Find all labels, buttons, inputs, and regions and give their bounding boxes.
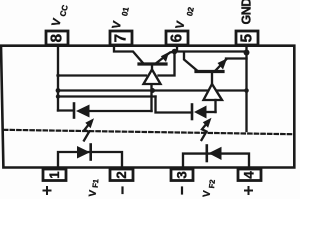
pin 3 box	[171, 169, 193, 181]
svg-text:6: 6	[169, 34, 186, 43]
transistor Q1 emitter arrow	[161, 52, 169, 62]
svg-text:F1: F1	[91, 179, 101, 189]
transistor Q1 base bar	[139, 62, 166, 65]
wire rail to photodiode D2 cathode	[58, 95, 156, 97]
svg-text:5: 5	[239, 34, 256, 43]
wire pin 7 to transistor Q1 collector	[114, 45, 143, 63]
wire amp U1 input vertical	[150, 84, 152, 111]
junction dot VCC rail A	[56, 74, 59, 77]
LED D4 input wire channel 2	[183, 154, 249, 169]
photodiode D2	[192, 105, 207, 120]
transistor Q2 emitter arrow	[218, 59, 228, 70]
label plus pin 1	[44, 187, 51, 194]
LED D3 input wire channel 1	[58, 152, 122, 169]
transistor Q1 emitter	[157, 52, 174, 63]
wire rail VCC to amp U1	[58, 74, 146, 76]
svg-text:8: 8	[49, 34, 66, 43]
pin 5 box	[236, 31, 258, 45]
wire amp U2 input vertical	[214, 100, 216, 112]
wire transistor Q2 collector drop	[184, 52, 197, 71]
light arrow channel 2	[202, 118, 212, 140]
wire node to pin5 vertical	[176, 50, 247, 52]
label plus pin 4	[245, 187, 252, 194]
junction dot VCC rail B	[56, 88, 61, 93]
svg-text:GND: GND	[240, 0, 254, 25]
label minus pin 3	[181, 188, 183, 194]
pin 7 box	[110, 31, 132, 45]
junction dot GND top	[244, 50, 250, 56]
svg-text:1: 1	[47, 171, 62, 179]
amp U1 triangle	[144, 70, 161, 85]
wire rail across to pin5 vertical	[58, 89, 247, 91]
junction dot GND rail	[244, 88, 249, 93]
svg-text:3: 3	[175, 171, 190, 179]
light arrow channel 1	[84, 118, 94, 140]
wire photodiode D1 anode to amp input	[89, 110, 152, 112]
package outline	[1, 46, 294, 168]
wire photodiode D2 anode	[206, 111, 216, 113]
pin 4 box	[238, 169, 261, 181]
svg-text:7: 7	[113, 34, 130, 43]
node junction pin6/emitter	[172, 49, 178, 55]
wire amp U1 right side to node	[159, 53, 175, 76]
pin 1 box	[43, 169, 66, 181]
pin 8 box	[46, 31, 68, 45]
photodiode D1	[74, 104, 90, 118]
pin 2 box	[110, 169, 133, 181]
amp U2 stub	[211, 72, 213, 85]
pin 6 box	[166, 31, 188, 45]
svg-text:4: 4	[242, 171, 257, 179]
transistor Q2 base bar	[196, 70, 223, 73]
LED D3	[77, 145, 91, 160]
transistor Q2 emitter	[216, 60, 226, 71]
wire VCC vertical from pin 8	[57, 45, 59, 111]
wire pin 6 drop	[176, 45, 178, 50]
amp U1 stub	[151, 66, 153, 71]
isolation shield dashed line	[4, 130, 292, 134]
junction dot VCC rail C	[56, 94, 60, 98]
wire photodiode D2 cathode to rail	[156, 97, 193, 113]
svg-text:F2: F2	[207, 179, 217, 189]
wire Q2 emitter to GND vertical	[226, 57, 247, 59]
junction dot amp1 input crossing	[150, 88, 155, 93]
wire photodiode D1 cathode	[58, 109, 72, 111]
label minus pin 2	[121, 188, 123, 194]
svg-text:2: 2	[114, 171, 129, 179]
amp U2 triangle	[204, 84, 223, 100]
wire pin 5 GND vertical to shield	[245, 45, 247, 131]
LED D4	[207, 146, 222, 162]
